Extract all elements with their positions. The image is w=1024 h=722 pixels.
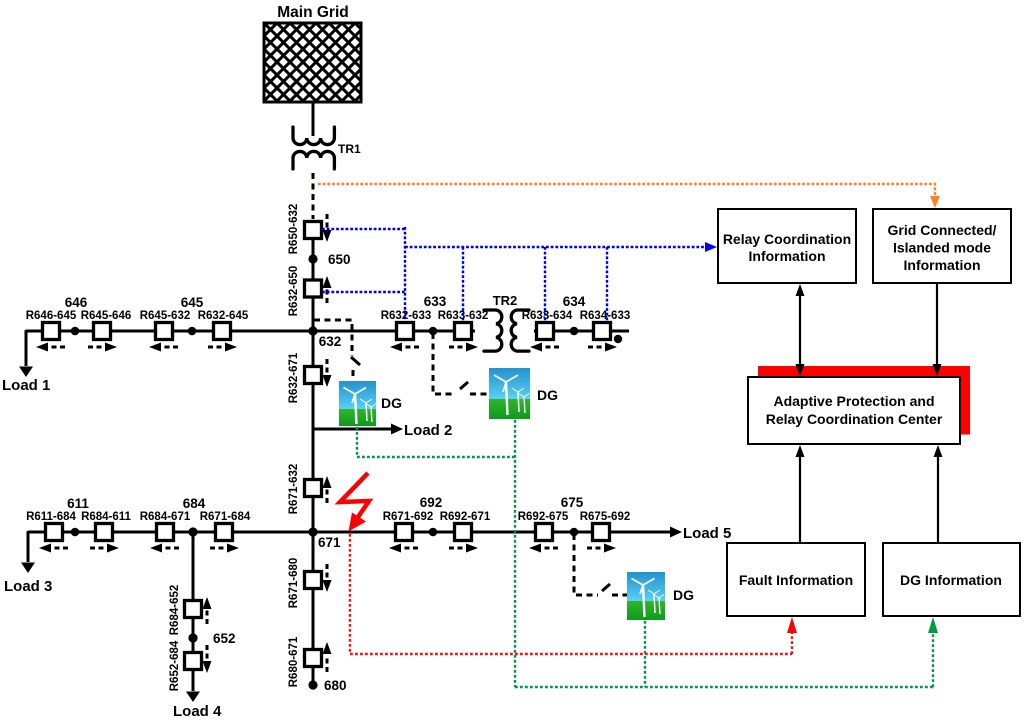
relay R684-671 bbox=[140, 511, 191, 553]
svg-text:R645-646: R645-646 bbox=[81, 310, 132, 322]
double arrow: Relay Coordination box to center box bbox=[796, 284, 805, 376]
svg-text:Information: Information bbox=[904, 257, 981, 273]
node 652 bbox=[188, 631, 235, 646]
svg-text:R633-634: R633-634 bbox=[522, 310, 573, 322]
svg-text:DG Information: DG Information bbox=[900, 572, 1002, 588]
svg-text:680: 680 bbox=[324, 678, 347, 693]
node 650 bbox=[308, 252, 350, 267]
svg-text:650: 650 bbox=[328, 252, 351, 267]
Adaptive Protection and Relay Coordination Center box bbox=[748, 377, 960, 444]
relay R684-652 bbox=[169, 585, 212, 636]
relay R632-633 bbox=[381, 310, 432, 352]
node 633 bbox=[424, 294, 447, 335]
svg-text:634: 634 bbox=[563, 294, 586, 309]
relay R650-632 bbox=[288, 204, 332, 255]
relay R632-645 bbox=[198, 310, 249, 352]
svg-text:Main Grid: Main Grid bbox=[277, 4, 348, 21]
orange dotted link: TR1 to Grid Connected box bbox=[318, 184, 935, 197]
svg-text:R671-684: R671-684 bbox=[200, 511, 251, 523]
svg-text:R680-671: R680-671 bbox=[288, 636, 300, 687]
Load 3 drop wire bbox=[27, 531, 30, 562]
svg-text:611: 611 bbox=[67, 496, 89, 511]
svg-text:R675-692: R675-692 bbox=[580, 511, 631, 523]
svg-text:R671-632: R671-632 bbox=[288, 464, 300, 515]
svg-text:Grid Connected/: Grid Connected/ bbox=[888, 222, 997, 238]
svg-text:675: 675 bbox=[561, 495, 584, 510]
DG unit 1 (wind) bbox=[339, 381, 402, 426]
relay R633-632 bbox=[438, 310, 489, 352]
svg-text:Load 3: Load 3 bbox=[4, 578, 52, 595]
Load 1 drop wire bbox=[25, 330, 28, 366]
Relay Coordination Information box bbox=[718, 209, 856, 283]
svg-text:Load 2: Load 2 bbox=[404, 422, 452, 439]
Load 2 branch wire bbox=[313, 428, 392, 431]
wire: node 675 to DG3 (dashed with switch) bbox=[574, 534, 627, 595]
wire: node 632 to DG1 (dashed with switch) bbox=[314, 320, 360, 380]
DG unit 3 (wind) bbox=[627, 572, 694, 620]
relay R671-684 bbox=[200, 511, 251, 553]
svg-text:TR2: TR2 bbox=[493, 293, 518, 308]
relay R684-611 bbox=[81, 511, 131, 553]
svg-text:R632-645: R632-645 bbox=[198, 310, 249, 322]
Main Grid source box bbox=[264, 4, 361, 102]
node 646 bbox=[65, 295, 88, 335]
wire: TR1 to relay R650-632 (dashed) bbox=[312, 173, 315, 219]
node 634 bbox=[563, 294, 586, 335]
relay R680-671 bbox=[288, 636, 332, 687]
node 645 bbox=[181, 295, 204, 335]
wire: node 633 to DG2 (dashed with switch) bbox=[433, 333, 489, 394]
svg-text:R684-611: R684-611 bbox=[81, 511, 131, 523]
svg-text:R652-684: R652-684 bbox=[169, 640, 181, 691]
relay R671-692 bbox=[383, 511, 434, 553]
DG unit 2 (wind) bbox=[489, 368, 558, 419]
transformer TR1 bbox=[293, 127, 334, 169]
bottom feeder 611-684-671-692-675 wire bbox=[28, 531, 672, 534]
relay R632-650 bbox=[288, 266, 332, 317]
svg-text:R684-652: R684-652 bbox=[169, 585, 181, 636]
relay R611-684 bbox=[26, 511, 76, 553]
node 684 bbox=[183, 496, 206, 537]
red highlight rectangle behind center box bbox=[758, 366, 970, 435]
node 692 bbox=[420, 495, 443, 536]
relay R645-646 bbox=[81, 310, 132, 352]
svg-text:Load 4: Load 4 bbox=[173, 703, 222, 720]
svg-text:646: 646 bbox=[65, 295, 88, 310]
green dotted link: DG units to DG Information box bbox=[357, 420, 933, 687]
relay R652-684 bbox=[169, 640, 212, 691]
fault lightning arrow at node 671 bbox=[340, 473, 369, 532]
relay R634-633 bbox=[580, 310, 631, 352]
svg-text:Islanded mode: Islanded mode bbox=[893, 240, 991, 256]
svg-text:692: 692 bbox=[420, 495, 443, 510]
arrow: Grid Connected box to center box bbox=[933, 283, 942, 376]
svg-text:Information: Information bbox=[749, 248, 826, 264]
svg-text:633: 633 bbox=[424, 294, 447, 309]
node 675 bbox=[561, 495, 584, 536]
wire: Main Grid to TR1 bbox=[312, 102, 315, 136]
svg-text:Relay Coordination Center: Relay Coordination Center bbox=[766, 411, 943, 427]
relay R645-632 bbox=[140, 310, 191, 352]
svg-text:DG: DG bbox=[673, 587, 694, 603]
svg-text:R646-645: R646-645 bbox=[26, 310, 77, 322]
Grid Connected / Islanded mode Information box bbox=[873, 209, 1011, 283]
svg-text:Load 1: Load 1 bbox=[2, 377, 50, 394]
transformer TR2 bbox=[484, 310, 529, 351]
svg-text:Relay Coordination: Relay Coordination bbox=[723, 231, 851, 247]
top feeder 646-645-632-633 wire bbox=[26, 330, 475, 333]
svg-text:Fault Information: Fault Information bbox=[739, 572, 853, 588]
relay R692-675 bbox=[518, 511, 569, 553]
relay R646-645 bbox=[26, 310, 77, 352]
svg-text:632: 632 bbox=[319, 334, 342, 349]
terminal dot after R634-633 bbox=[614, 335, 622, 343]
Fault Information box bbox=[727, 543, 865, 616]
svg-text:R671-692: R671-692 bbox=[383, 511, 434, 523]
main vertical bus 650-632-671-680 bbox=[312, 240, 315, 685]
svg-text:R692-671: R692-671 bbox=[440, 511, 491, 523]
node 611 bbox=[67, 496, 89, 536]
relay R632-671 bbox=[288, 352, 332, 403]
top feeder 633-634 wire after TR2 bbox=[534, 330, 629, 333]
svg-text:R632-650: R632-650 bbox=[288, 266, 300, 317]
svg-text:R671-680: R671-680 bbox=[288, 558, 300, 609]
Load 4 arrowhead bbox=[186, 692, 200, 703]
relay R692-671 bbox=[440, 511, 491, 553]
svg-text:R632-671: R632-671 bbox=[288, 352, 300, 403]
svg-text:671: 671 bbox=[318, 535, 341, 550]
arrow: DG Information box to center box bbox=[934, 445, 943, 543]
svg-text:652: 652 bbox=[213, 631, 236, 646]
svg-text:R645-632: R645-632 bbox=[140, 310, 191, 322]
node 680 bbox=[308, 678, 346, 693]
svg-text:DG: DG bbox=[381, 395, 402, 411]
node 632 bbox=[308, 326, 341, 349]
svg-text:R684-671: R684-671 bbox=[140, 511, 191, 523]
svg-text:Load 5: Load 5 bbox=[683, 525, 731, 542]
652 branch wire from node 684 bbox=[192, 532, 195, 691]
DG Information box bbox=[883, 543, 1020, 616]
svg-text:R650-632: R650-632 bbox=[288, 204, 300, 255]
red dotted link: fault point to Fault Information box bbox=[350, 534, 792, 654]
relay R671-632 bbox=[288, 464, 332, 515]
arrow: Fault Information box to center box bbox=[796, 445, 805, 543]
relay R671-680 bbox=[288, 558, 332, 609]
svg-text:R692-675: R692-675 bbox=[518, 511, 569, 523]
svg-text:645: 645 bbox=[181, 295, 204, 310]
relay R675-692 bbox=[580, 511, 631, 553]
svg-text:684: 684 bbox=[183, 496, 206, 511]
blue dotted link: relays to Relay Coordination box bbox=[322, 227, 708, 321]
svg-text:DG: DG bbox=[537, 387, 558, 403]
svg-text:Adaptive Protection and: Adaptive Protection and bbox=[773, 393, 934, 409]
relay R633-634 bbox=[522, 310, 573, 352]
svg-text:R611-684: R611-684 bbox=[26, 511, 76, 523]
svg-text:TR1: TR1 bbox=[338, 142, 361, 156]
node 671 bbox=[308, 527, 341, 550]
Load 5 arrowhead bbox=[670, 527, 682, 538]
svg-text:R634-633: R634-633 bbox=[580, 310, 631, 322]
